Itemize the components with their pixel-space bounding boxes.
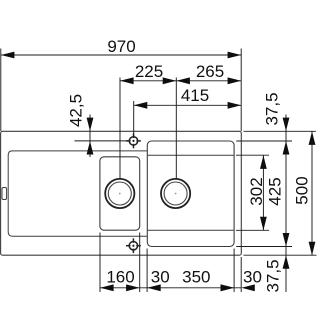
dimension 37,5 bottom right (285, 247, 287, 293)
dimension 302 (262, 155, 264, 230)
dimension 415 (134, 101, 242, 137)
overflow slot (2, 188, 7, 200)
right side extension lines (236, 131, 317, 255)
svg-text:350: 350 (182, 268, 210, 287)
main bowl inner top line (148, 154, 234, 156)
svg-text:30: 30 (151, 268, 170, 287)
svg-text:160: 160 (106, 268, 134, 287)
svg-text:265: 265 (196, 62, 224, 81)
svg-text:42,5: 42,5 (67, 94, 86, 127)
dimension 265 (176, 77, 190, 84)
inner rim outline (8, 151, 147, 236)
bottom hole (126, 238, 141, 253)
svg-text:225: 225 (135, 62, 163, 81)
main bowl drain (161, 179, 190, 208)
small bowl drain (105, 179, 134, 208)
svg-text:37,5: 37,5 (263, 92, 282, 125)
dimension 160 (100, 284, 114, 291)
sink outer rectangle (1, 131, 242, 255)
small bowl (100, 157, 140, 230)
dimension 425 (285, 141, 287, 247)
dimension 42,5 (75, 115, 130, 158)
main bowl inner bottom line (148, 229, 234, 231)
dimension 970 (1, 49, 241, 132)
dimension 500 (311, 131, 313, 255)
svg-text:30: 30 (243, 268, 262, 287)
svg-text:415: 415 (181, 86, 209, 105)
svg-text:302: 302 (247, 177, 266, 205)
dimension 37,5 top right (285, 115, 287, 142)
dimension 30 right (221, 284, 235, 291)
bottom extension lines (100, 233, 241, 293)
svg-text:500: 500 (293, 176, 312, 204)
dimension 225 (120, 78, 241, 180)
svg-text:37,5: 37,5 (264, 259, 283, 292)
svg-text:425: 425 (266, 177, 285, 205)
tap hole (126, 134, 141, 149)
main bowl (147, 141, 234, 247)
dimension 350 (147, 284, 161, 291)
svg-text:970: 970 (107, 37, 135, 56)
